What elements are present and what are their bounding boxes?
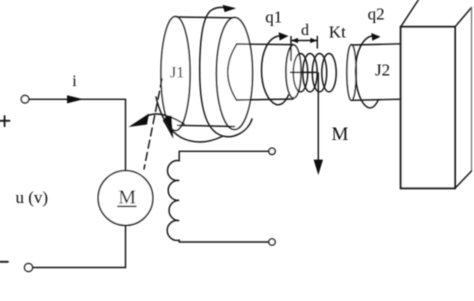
inductor field winding [167, 151, 269, 242]
dimension d line [291, 40, 317, 42]
dimension d arrowheads [291, 38, 298, 43]
minus sign label [0, 261, 8, 263]
q2 rotation arrowhead [371, 33, 380, 41]
wall front face [401, 27, 455, 189]
terminal - (input negative) [25, 264, 33, 272]
svg-text:i: i [72, 73, 77, 90]
svg-text:Kt: Kt [329, 22, 346, 41]
spring Kt coil 3 [312, 53, 326, 91]
terminal + (input positive) [21, 95, 29, 103]
svg-text:J1: J1 [170, 65, 184, 82]
torque arrow M line [317, 73, 319, 160]
wall back edge [471, 8, 473, 172]
motor M [98, 171, 153, 226]
wall bottom slant [455, 171, 472, 188]
flywheel J1 right ellipse [217, 18, 253, 130]
inertia J2 bottom line [352, 99, 403, 100]
spring Kt coil 1 [293, 53, 307, 91]
wire top (terminal to motor) [29, 99, 126, 171]
dimension d right tick [316, 37, 318, 49]
inductor terminal bottom [269, 239, 275, 245]
flywheel J1 bottom line [178, 125, 235, 126]
flywheel J1 top line [177, 16, 235, 19]
dashed coupling line motor to J1 [144, 79, 162, 169]
dimension d left tick [290, 37, 292, 61]
wire bottom (motor to terminal -) [33, 225, 126, 267]
spring Kt coil 2 [303, 53, 317, 91]
q2 rotation arc [356, 36, 379, 108]
shaft hub arc [228, 45, 237, 101]
q1 rotation arrowhead [279, 32, 289, 40]
shaft top line [237, 43, 294, 46]
coupling curved arrow left [146, 114, 184, 124]
J1 rotation arrowhead [223, 5, 237, 12]
svg-text:d: d [301, 22, 309, 39]
spring centerline [291, 71, 317, 73]
spring Kt coil 4 [322, 53, 336, 91]
coupling swoop arc [156, 97, 222, 142]
wall top-left slant [401, 0, 419, 27]
svg-text:J2: J2 [375, 61, 390, 80]
plus sign label [0, 116, 10, 126]
wall top-right slant [455, 8, 472, 27]
inertia J2 left ellipse [347, 45, 356, 101]
shaft bottom line [237, 99, 294, 100]
svg-text:M: M [118, 187, 136, 209]
current arrow i [67, 95, 84, 103]
torque arrowhead [314, 160, 323, 175]
svg-text:q1: q1 [265, 7, 282, 26]
svg-text:q2: q2 [368, 5, 385, 24]
flywheel J1 left ellipse [161, 17, 190, 131]
shaft end ellipse [286, 45, 301, 98]
q1 rotation arc [262, 36, 289, 105]
svg-text:M: M [332, 124, 349, 145]
inductor terminal top [269, 148, 275, 154]
inertia J2 top line [352, 44, 403, 45]
svg-text:u (v): u (v) [16, 188, 49, 207]
J1 rotation arc [200, 7, 252, 136]
coupling curved arrow right [163, 116, 173, 139]
